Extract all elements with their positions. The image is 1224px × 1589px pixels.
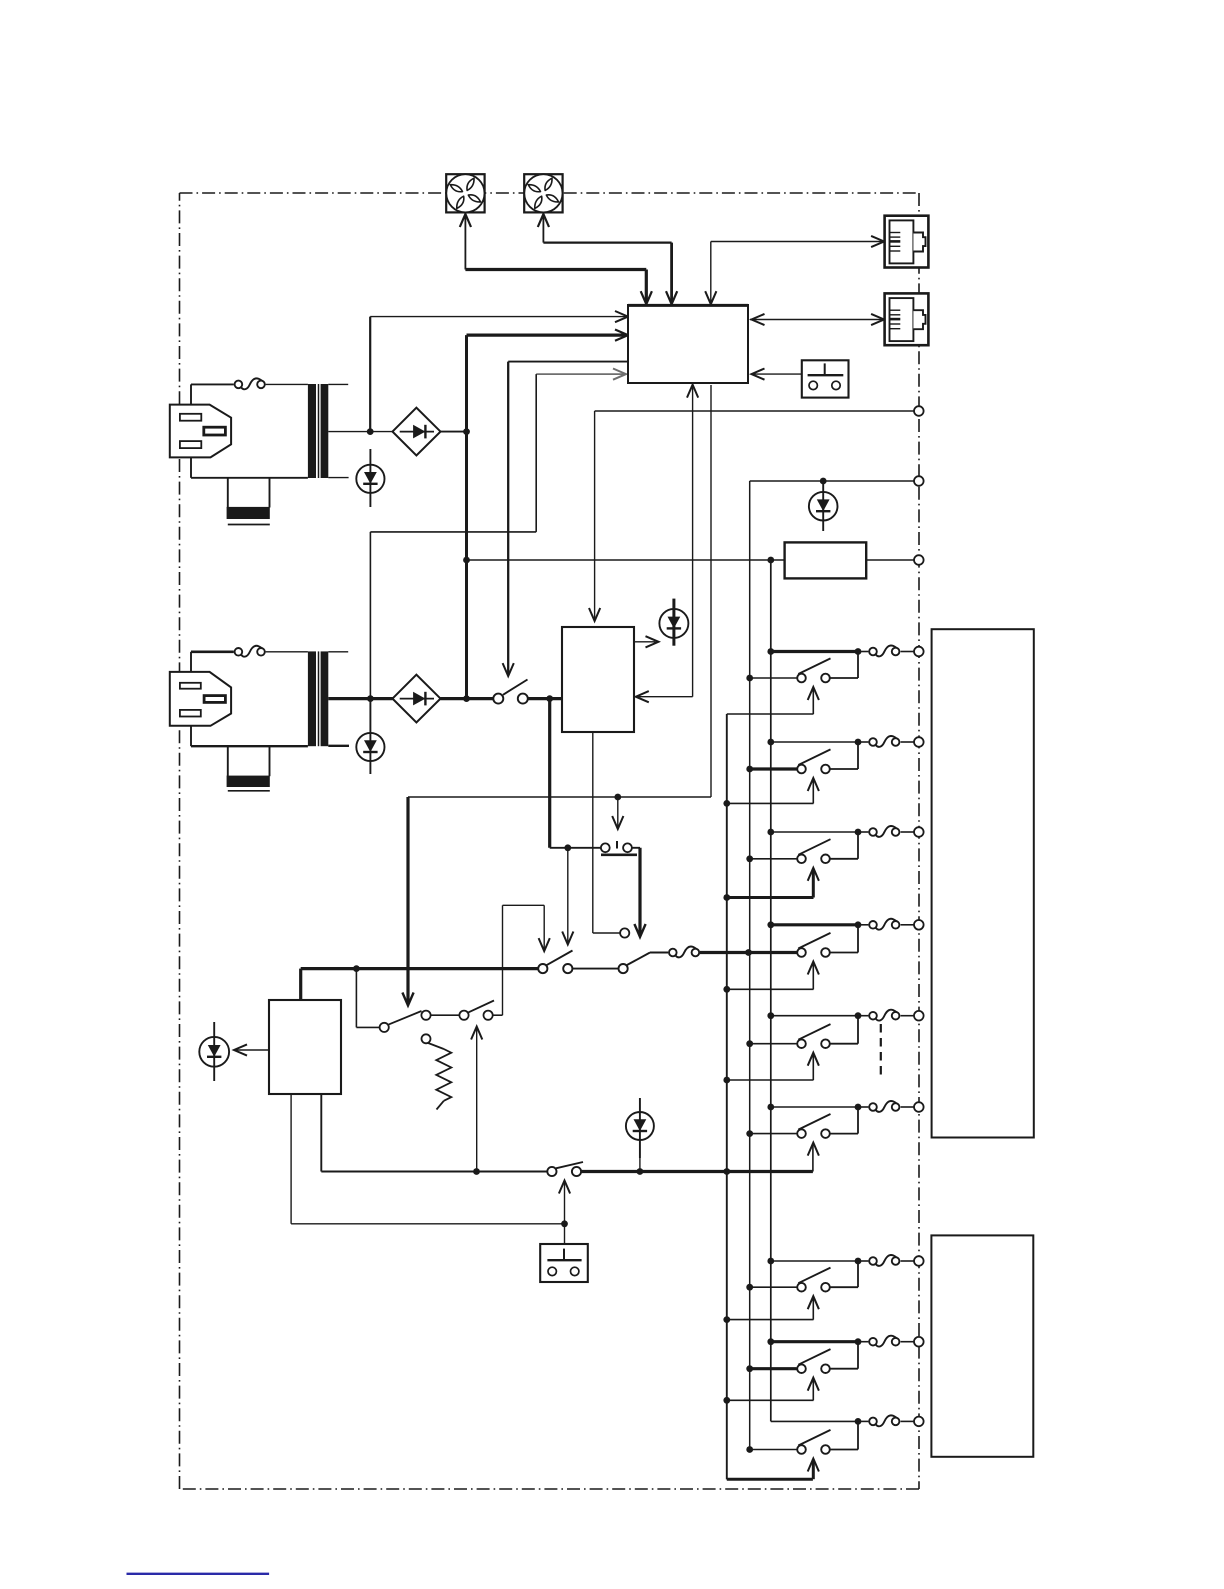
relay output row 3 : top line [767,829,861,836]
relay contact K6 [746,1107,858,1138]
bridge rectifier D2 [393,675,441,723]
fuse row 3 [858,826,914,837]
wire aux contact chain feed [356,969,379,1028]
relay output row 5 : top line [767,1012,861,1019]
LED D4 (AC2 indicator) [356,699,384,774]
wire fuse F1 to transformer T1 [266,383,308,385]
wire standby rail to relay drive bus [581,1168,813,1175]
wire DC bus from bridge D1 to U1 and down to bridge D2 node [467,330,629,699]
wire fan2 control from U1 [538,214,677,304]
wire external enable terminal to U2 [589,411,914,621]
wire actuator arrow row 5 [723,1053,819,1084]
AC inlet CN1 [170,405,231,458]
relay output row 7 : top line [767,1258,861,1265]
wire relay drive bus (vertical) [726,714,728,1479]
AC inlet CN2 [170,672,231,726]
LED D7 (standby indicator) [626,1098,654,1172]
wire RJ45 J2 link (bidirectional) [750,314,884,325]
relay contact K-standby [547,1162,583,1176]
wire RJ45 J1 link [705,236,884,304]
wire actuator arrow row 2 [723,778,819,807]
wire between main contacts [573,968,619,970]
wire fan1 control from U1 [460,214,652,304]
wire T2 secondary stubs [328,652,349,746]
outlet bank block J4 [931,1235,1033,1456]
relay output row 4 : top line [767,921,861,928]
transformer T1 [308,384,328,478]
fuse row 4 [858,919,914,930]
wire bridge D2 output node [441,695,494,702]
wire neutral bus (vertical) [770,560,772,1421]
auxiliary interlock contacts [380,1001,503,1033]
bridge rectifier D1 [393,408,441,456]
fan M1 [446,174,484,212]
node T2 sense [367,695,374,702]
wire DC feed down to standby pushbutton SW3 [550,699,601,852]
relay contact K7 [746,1261,858,1291]
fuse row 2 [858,736,914,747]
border terminals [914,406,924,1426]
relay contact K2 [746,742,858,773]
controller block U1 [628,305,748,383]
chassis border (dash-dot frame) [180,193,920,1489]
relay contact K9 [746,1421,858,1453]
wire main live rail to relay bank [301,965,540,1000]
wire T1 secondary stubs [328,384,348,477]
relay contact K5 [746,1016,858,1048]
RJ45 jack J1 [885,216,929,268]
wire coil to terminal [866,559,914,561]
transformer T2 [308,651,328,746]
wire K0 to regulator U2 [528,695,562,702]
wire actuator arrow row 3 [723,868,819,901]
wire coil feed line [463,557,784,564]
wire AC sense 2 : bridge D2 node to U1 (gray) [370,369,626,699]
fuse row 6 [858,1101,914,1112]
regulator block U2 [562,627,634,732]
wire U1 switch drive to relay K0 contact (bridge D2 row) [503,362,628,676]
resistor R1 (bleeder) [422,1034,452,1109]
relay output row 8 : top line [767,1338,861,1345]
wire actuator arrow row 9 [727,1459,819,1480]
wire AC sense 1 : bridge D1 node to U1 [370,311,628,432]
LED D6 (trigger indicator) [199,1022,229,1081]
wire U3 to LED D6 [234,1044,269,1055]
relay output row 6 : top line [767,1104,861,1111]
wire U2 to LED D5 [634,636,659,647]
wire inlet1 neutral to transformer T1 [191,457,308,477]
relay contact K1 [746,652,858,683]
wire T1 secondary to bridge D1 [328,431,392,433]
wire actuate arrow from standby line [471,1027,482,1172]
wire interlock arrow at main contact [562,848,573,945]
relay contact K3 [746,832,858,863]
fuse row 5 [858,1010,914,1021]
relay output row 9 : top line [771,1418,862,1425]
RJ45 jack J2 [885,293,929,345]
pushbutton SW1 (rear panel) [802,360,849,397]
wire SW3 to main relay actuator [632,848,646,937]
wire U2 status to U1 (up) and U1 command to U2 (left arrow) [636,385,698,703]
fuse row 9 [858,1415,914,1426]
fuse F3 (main) [669,946,699,957]
pushbutton SW2 (panel) [540,1224,588,1282]
wire U3 output to standby rail [321,1094,547,1175]
footer rule [127,1573,270,1575]
fan M2 [524,174,562,212]
ground chassis earth 1 [227,478,270,525]
wire standby actuate arrow [559,1181,570,1224]
trigger block U3 [269,1000,341,1094]
wire U2 aux sense to contact [593,732,630,938]
wire inlet2 neutral to transformer T2 [191,726,308,746]
wire actuator arrow row 7 [723,1296,819,1323]
wire actuator arrow row 6 [808,1143,819,1172]
wire actuator arrow row 1 [727,687,819,714]
fuse row 7 [858,1255,914,1266]
wire fuse F3 to outlet relay bank [700,949,797,956]
wire inlet1 line to fuse F1 [191,384,234,404]
fuse row 8 [858,1336,914,1347]
ground chassis earth 2 [227,746,270,791]
fuse F2 [235,646,265,657]
pushbutton SW3 (momentary) [601,841,637,855]
wire actuator arrow row 8 [723,1378,819,1404]
wire inlet2 line to fuse F2 [191,652,234,672]
wire bridge D1 output node [441,428,470,435]
wire switched-live bus (vertical) [749,481,751,1450]
wire T2 secondary to bridge D2 [328,697,392,700]
relay contact K4 [797,925,858,957]
fuse F1 [235,378,265,389]
LED D8 (live indicator) [809,481,838,531]
wire contact to fuse F3 [650,952,668,954]
wire SW1 pushbutton to U1 [752,369,802,380]
wire U1 relay-drive output down to driver rail [402,385,711,1006]
wire U3 output to pushbutton rail [291,1094,568,1227]
wire actuator arrow row 4 [723,962,819,993]
relay coil RY (thermal block) [785,542,867,578]
LED D5 (power good) [659,599,688,646]
outlet bank block J3 [932,629,1034,1137]
relay contact K0 (DC power switch) [493,680,528,704]
LED D3 (AC1 indicator) [356,449,384,507]
relay output row 2 : top line [767,739,861,746]
relay contact K-main-B [619,953,651,974]
wire live sense line to terminal [750,478,914,485]
node T1 sense [367,428,374,435]
wire interlock gamma line to contact arrows [503,905,550,1015]
wire fuse F2 to transformer T2 [266,651,308,653]
relay output row 1 : top line [767,648,861,655]
relay contact K-main-A [538,951,572,974]
fuse row 1 [858,645,914,656]
continuation marks (dashed) [881,1024,978,1090]
relay contact K8 [746,1342,858,1373]
